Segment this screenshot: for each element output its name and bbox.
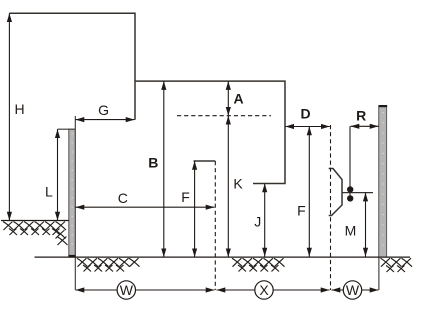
svg-text:A: A	[233, 90, 243, 106]
svg-text:F: F	[297, 202, 306, 218]
svg-text:W: W	[120, 282, 134, 298]
svg-text:B: B	[148, 155, 158, 171]
svg-text:W: W	[346, 282, 360, 298]
svg-text:G: G	[98, 102, 109, 118]
svg-text:M: M	[345, 223, 357, 239]
svg-text:J: J	[254, 213, 261, 229]
svg-text:C: C	[118, 190, 128, 206]
svg-text:K: K	[233, 175, 243, 191]
svg-text:L: L	[45, 184, 53, 200]
svg-text:X: X	[259, 282, 269, 298]
svg-text:R: R	[356, 108, 366, 124]
svg-text:D: D	[300, 106, 310, 122]
svg-text:F: F	[181, 189, 190, 205]
svg-text:H: H	[14, 101, 24, 117]
